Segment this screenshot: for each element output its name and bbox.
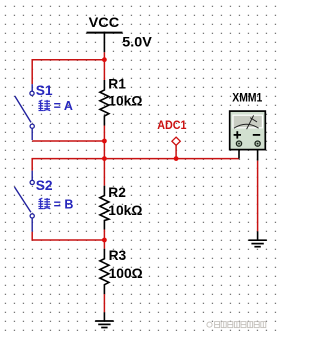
switch S1 key label (key = A) (38, 99, 73, 113)
ground (bottom, under R3) (95, 312, 113, 327)
node ADC1 junction (174, 156, 179, 161)
switch S1 (15, 83, 53, 140)
watermark (207, 322, 266, 328)
svg-text:VCC: VCC (89, 15, 120, 30)
svg-text:S2: S2 (36, 178, 53, 193)
power symbol VCC (87, 15, 123, 53)
svg-text:R2: R2 (108, 185, 126, 200)
node C junction (102, 156, 107, 161)
svg-text:R3: R3 (109, 248, 127, 263)
svg-text:10kΩ: 10kΩ (108, 203, 142, 218)
svg-text:R1: R1 (108, 77, 126, 92)
wire XMM1 plus lead (238, 150, 240, 159)
wire R3 bottom to ground (103, 294, 105, 312)
switch S2 (15, 171, 53, 232)
svg-text:ADC1: ADC1 (157, 118, 187, 132)
multimeter XMM1 (230, 92, 266, 150)
wire VCC column top (red) (103, 52, 105, 80)
switch S2 key label (key = B) (38, 197, 73, 211)
svg-text:S1: S1 (36, 83, 53, 98)
resistor R1 (100, 77, 142, 126)
ground (right, under XMM1) (248, 231, 266, 246)
svg-text:= A: = A (54, 99, 73, 113)
value label 5.0V (122, 35, 152, 50)
wire R2 bottom through node D to R3 top (103, 230, 105, 249)
on-page connector ADC1 (157, 118, 187, 159)
node A junction (102, 57, 107, 62)
wire from node A to S1 top (32, 60, 104, 84)
resistor R3 (100, 248, 143, 294)
wire long net ADC to XMM1 plus (32, 159, 239, 171)
svg-text:= B: = B (54, 197, 74, 211)
wire S1 bottom to node B (32, 140, 104, 142)
wire column R1 bottom through node B to R2 top (103, 126, 105, 186)
wire S2 bottom to node D (32, 232, 104, 240)
node B junction (102, 139, 107, 144)
svg-text:100Ω: 100Ω (109, 266, 143, 281)
svg-text:5.0V: 5.0V (122, 35, 152, 50)
wire XMM1 minus to ground (red) (257, 161, 259, 232)
svg-text:XMM1: XMM1 (232, 92, 262, 105)
svg-text:10kΩ: 10kΩ (108, 94, 142, 109)
wire XMM1 minus lead (257, 150, 259, 161)
node D junction (102, 238, 107, 243)
resistor R2 (100, 185, 142, 229)
